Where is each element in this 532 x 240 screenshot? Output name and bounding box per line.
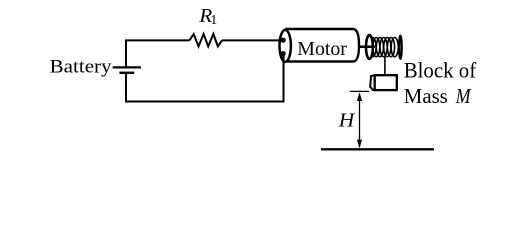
wire battery to resistor xyxy=(126,40,189,68)
svg-text:Motor: Motor xyxy=(297,39,347,60)
wire battery bottom to motor xyxy=(126,54,284,102)
resistor R1 xyxy=(189,34,222,46)
svg-text:M: M xyxy=(455,84,472,108)
motor terminal dot bottom xyxy=(281,51,286,56)
spool right flange xyxy=(399,36,402,59)
wire resistor to motor xyxy=(222,39,284,41)
spool left flange xyxy=(366,35,373,59)
dimension arrow H xyxy=(359,94,361,147)
tick under block xyxy=(350,90,369,92)
svg-text:Battery: Battery xyxy=(50,57,113,78)
battery B1 bottom plate xyxy=(119,72,134,74)
motor left end cap xyxy=(280,30,291,62)
svg-text:1: 1 xyxy=(210,12,217,27)
motor shaft xyxy=(359,45,375,48)
ground line xyxy=(321,148,434,150)
battery B1 top plate xyxy=(113,66,141,68)
svg-text:H: H xyxy=(338,110,356,132)
string from spool to block xyxy=(384,57,386,76)
motor terminal dot top xyxy=(281,38,286,43)
block side face xyxy=(370,75,375,90)
svg-text:Block of: Block of xyxy=(404,58,477,82)
spool coil windings xyxy=(369,38,398,57)
svg-text:Mass: Mass xyxy=(404,84,448,108)
motor U1 body xyxy=(285,29,359,62)
block of mass M xyxy=(375,75,397,90)
